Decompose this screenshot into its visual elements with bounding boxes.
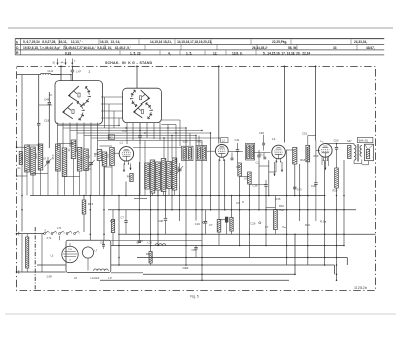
wire drop to output	[315, 66, 317, 68]
chassis dash-dot border	[17, 66, 376, 290]
label M2 box	[108, 135, 114, 140]
capacitor C25	[263, 153, 265, 158]
svg-text:C:: C:	[16, 46, 20, 50]
output transformer primary	[354, 145, 356, 160]
svg-text:13,8, 9,: 13,8, 9,	[232, 51, 243, 55]
svg-text:ΩR2: ΩR2	[183, 266, 189, 270]
wire padder to L2	[207, 150, 216, 152]
speaker	[365, 144, 374, 161]
mains wire bottom	[17, 271, 66, 273]
coil S19	[97, 150, 102, 161]
svg-text:b: b	[16, 40, 18, 44]
svg-text:L7b: L7b	[57, 227, 62, 230]
svg-text:C19: C19	[195, 222, 200, 226]
svg-text:R15: R15	[276, 197, 281, 201]
svg-text:4,: 4,	[168, 51, 171, 55]
osc coil S25	[150, 160, 155, 193]
svg-text:C15: C15	[94, 154, 99, 156]
table cell ticks	[58, 39, 60, 44]
bus y265	[37, 264, 66, 266]
L3 cathode arrows	[274, 162, 276, 176]
tie K5 to R column	[266, 206, 275, 208]
svg-text:S15: S15	[108, 153, 110, 158]
coil S17	[84, 149, 89, 171]
mesh drop wires	[139, 144, 141, 196]
svg-text:S47: S47	[347, 139, 352, 143]
padder top stubs	[189, 133, 191, 145]
switch to box wire	[59, 236, 61, 240]
grid arrows L1	[123, 164, 125, 173]
coil S23	[110, 148, 115, 166]
svg-text:C41: C41	[235, 138, 240, 142]
bus y257.5	[137, 257, 347, 259]
osc coil S35	[145, 163, 150, 189]
svg-text:5, 6,7,29,34 8,9,27,28, 16: 5, 6,7,29,34 8,9,27,28, 16,11, 12,13,’’ …	[23, 40, 83, 44]
svg-text:6,33: 6,33	[65, 51, 71, 55]
gramo motor box	[66, 240, 111, 272]
aerial coil S5	[31, 147, 36, 175]
choke CH1	[41, 73, 51, 74]
capacitor C26	[258, 150, 260, 155]
wires between switch boxes	[101, 96, 123, 98]
svg-text:C48: C48	[158, 219, 163, 223]
tube L2	[221, 138, 228, 143]
wires switch unit I to band	[57, 123, 59, 150]
svg-text:33: 33	[333, 46, 337, 50]
capacitor C48b	[165, 195, 167, 218]
wire drop to L3	[284, 66, 286, 68]
rotary switch unit S-II box	[123, 88, 162, 122]
svg-text:S3·4: S3·4	[36, 153, 38, 159]
tube L3	[272, 145, 286, 159]
svg-text:C7: C7	[209, 223, 213, 227]
coil S11	[62, 148, 67, 177]
switch wafer S2b	[145, 103, 150, 108]
svg-text:R16: R16	[279, 204, 284, 208]
junction dots on buses	[21, 195, 23, 197]
svg-text:C7: C7	[265, 225, 269, 229]
scan page top edge	[8, 27, 393, 29]
svg-text:L33: L33	[148, 241, 153, 245]
detector jog wires	[259, 165, 269, 167]
scan page bottom edge	[5, 313, 396, 315]
svg-text:24,33,34,: 24,33,34,	[354, 40, 367, 44]
node drop at x61	[60, 66, 62, 68]
choke S45	[306, 145, 310, 162]
svg-text:S41: S41	[197, 140, 203, 144]
wire L1 grid stub	[112, 152, 119, 154]
aerial coil S3	[25, 145, 30, 172]
output transformer secondary	[360, 146, 362, 157]
osc coil S27	[156, 162, 161, 190]
tube L4 fan wires	[321, 157, 323, 165]
trimmer C4	[47, 157, 49, 171]
jog C51 column	[308, 135, 316, 137]
svg-text:C7: C7	[121, 216, 125, 220]
parts value table frame	[15, 38, 384, 40]
svg-text:3,7k: 3,7k	[47, 237, 52, 240]
wire antenna entry	[17, 74, 41, 76]
wire title to switch unit	[136, 66, 138, 88]
bus y210	[108, 209, 356, 211]
svg-text:L6: L6	[74, 276, 77, 280]
capacitor C41	[237, 143, 239, 150]
svg-text:BAK 4Ω: BAK 4Ω	[359, 139, 368, 143]
wires switch unit II to band	[126, 123, 128, 144]
svg-text:1, 5,: 1, 5,	[186, 51, 192, 55]
coil bottoms to AVC bus stubs	[26, 169, 28, 196]
svg-text:S5·6: S5·6	[53, 154, 55, 160]
svg-text:R13: R13	[88, 202, 94, 206]
osc coil S33	[172, 158, 177, 190]
resistor R10	[230, 218, 233, 232]
svg-text:22,25,Pℓg,: 22,25,Pℓg,	[272, 40, 287, 44]
svg-text:C3: C3	[236, 201, 240, 205]
svg-text:26,34,35,2·: 26,34,35,2·	[252, 46, 268, 50]
svg-text:J.P.: J.P.	[108, 277, 112, 280]
svg-text:C13: C13	[86, 157, 91, 159]
IF transformer T2	[246, 143, 255, 160]
bus y245.5	[111, 245, 344, 247]
svg-text:C29: C29	[251, 222, 256, 226]
mains switch wire	[41, 234, 43, 272]
mains link wire	[21, 234, 23, 272]
svg-text:C49: C49	[44, 97, 50, 101]
bus AVC y195	[30, 195, 325, 197]
short bus y198.5	[134, 198, 147, 200]
osc coil stubs to bus	[152, 193, 154, 196]
svg-text:M2: M2	[109, 136, 113, 140]
choke S47	[348, 146, 351, 159]
coil S21	[102, 152, 107, 166]
coil S15	[77, 148, 82, 172]
svg-text:C17: C17	[122, 129, 128, 133]
capacitor C7b	[124, 220, 127, 222]
bus y234	[120, 233, 375, 235]
svg-text:R24: R24	[305, 223, 310, 227]
mains wire top	[17, 233, 44, 235]
osc coil S31	[167, 162, 172, 189]
switch wafer S1b	[77, 102, 83, 109]
osc bundle verticals	[163, 138, 165, 159]
svg-text:LYF: LYF	[76, 70, 81, 74]
coil S9	[56, 144, 61, 171]
svg-text:L11•9•3: L11•9•3	[91, 276, 100, 280]
coil L6	[94, 269, 109, 271]
svg-text:R.Ga: R.Ga	[320, 220, 327, 224]
mesh junction dots	[118, 125, 119, 126]
wire L4 plate to transformer	[325, 143, 354, 145]
osc trimmer C16	[179, 163, 181, 186]
svg-text:14,15,16 18,21, 14,15,16,: 14,15,16 18,21, 14,15,16,17,18,19,20,21,	[150, 40, 212, 44]
resistor R18	[293, 148, 297, 165]
capacitor C43	[293, 186, 296, 188]
switch wafer S2a	[132, 90, 136, 97]
svg-text:S1·2: S1·2	[22, 154, 24, 160]
svg-text:Pₐₐ: Pₐₐ	[283, 226, 287, 229]
wire motorbox top to bus	[111, 240, 202, 242]
osc coil S29	[161, 159, 166, 192]
svg-text:C50: C50	[334, 139, 339, 143]
svg-text:Fɪɡ. 5: Fɪɡ. 5	[190, 294, 199, 298]
svg-text:5, ,14,15,16, 17, 13,18, 20,: 5, ,14,15,16, 17, 13,18, 20, 22,24	[263, 51, 310, 55]
svg-text:C48: C48	[259, 131, 264, 135]
wire L2 to diode	[228, 151, 243, 153]
resistor R5A	[274, 210, 278, 230]
svg-text:2,9R: 2,9R	[47, 276, 52, 279]
bus y274.3	[143, 273, 295, 275]
resistor R8	[217, 220, 221, 233]
wire into switch box top	[70, 75, 72, 81]
svg-text:CH1: CH1	[48, 69, 54, 73]
input coil C1 at border	[19, 152, 22, 165]
wire drop to L2	[218, 66, 220, 68]
svg-text:58, 5ℓ,: 58, 5ℓ,	[288, 46, 298, 50]
svg-text:L1: L1	[120, 140, 124, 144]
band tie wires left group	[17, 146, 27, 148]
capacitor C21	[231, 153, 233, 159]
svg-text:C₂₅: C₂₅	[260, 153, 264, 156]
svg-text:L2: L2	[222, 139, 226, 143]
motor circle	[62, 246, 78, 262]
wire choke to switch	[51, 74, 61, 76]
svg-text:16,15, 13,·14,: 16,15, 13,·14,	[100, 40, 120, 44]
wires box1 left to caps	[49, 94, 52, 96]
svg-text:1, 5, 23: 1, 5, 23	[130, 51, 141, 55]
svg-text:C61: C61	[100, 241, 105, 244]
transformer core	[356, 144, 358, 162]
bus y280	[100, 279, 289, 281]
svg-text:12,: 12,	[213, 51, 217, 55]
riser x295	[294, 234, 296, 274]
svg-text:SCHAK. IN K G – STAND: SCHAK. IN K G – STAND	[105, 61, 153, 65]
svg-text:C51: C51	[302, 132, 308, 136]
wire L1 plate to padder	[133, 147, 182, 149]
transformer secondary loop	[353, 161, 355, 164]
svg-text:C36: C36	[253, 184, 258, 188]
svg-text:C₂₆: C₂₆	[256, 160, 260, 164]
svg-text:L3: L3	[272, 137, 276, 141]
interconnect wires below switch units	[58, 125, 120, 127]
vertical bus wires	[21, 75, 23, 232]
svg-text:19,52,6,18, 7,×,49,44,′A,p′: 19,52,6,18, 7,×,49,44,′A,p′ 7,8,49,44,T,…	[23, 46, 131, 50]
svg-text:S29: S29	[183, 140, 189, 144]
svg-text:220⁄: 220⁄	[68, 249, 72, 251]
svg-text:43/47,: 43/47,	[366, 46, 375, 50]
svg-text:2: 2	[89, 70, 91, 74]
shield partition dash line	[34, 227, 36, 291]
svg-text:R20: R20	[333, 188, 338, 192]
wire L3 to L4	[286, 149, 295, 151]
electrolytic C40	[225, 217, 228, 222]
svg-text:R18: R18	[300, 158, 305, 162]
coil S13	[71, 140, 76, 159]
mains dropper resistor	[26, 237, 29, 268]
svg-text:D252b: D252b	[355, 286, 368, 290]
pickup circle L7	[82, 247, 93, 258]
svg-text:R19: R19	[314, 154, 319, 158]
switch wafer S1a	[85, 87, 89, 95]
speaker label box BAK 4ohm	[358, 137, 373, 142]
capacitor at switch entry	[72, 66, 74, 68]
coil S7	[38, 144, 43, 170]
trimmer C13	[90, 158, 92, 170]
rotary switch unit S-I box	[55, 81, 103, 125]
wire diode to L3	[254, 152, 271, 154]
svg-text:G: G	[69, 259, 71, 261]
svg-text:C18: C18	[44, 118, 50, 122]
